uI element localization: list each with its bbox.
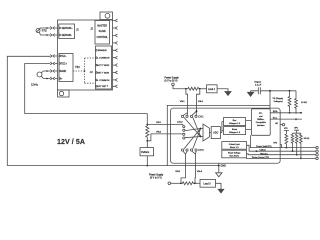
- mux select crossing wires: [184, 117, 201, 136]
- svg-text:+: +: [61, 78, 63, 80]
- VPU terminal 2: [293, 130, 301, 134]
- pullup resistor TC: [300, 134, 303, 158]
- svg-text:ENABLE: ENABLE: [98, 49, 107, 52]
- SDA line: [270, 112, 301, 114]
- mounting tab top: [100, 12, 113, 20]
- Shunt Voltages box: [224, 127, 246, 135]
- svg-text:J1: J1: [76, 28, 79, 32]
- svg-text:0.1 µF: 0.1 µF: [255, 85, 262, 87]
- pullup resistor SCL 10k: [295, 91, 298, 114]
- ground rail wire: [7, 165, 219, 167]
- svg-text:VIN+3: VIN+3: [197, 171, 202, 173]
- svg-text:A0: A0: [275, 122, 278, 125]
- svg-text:Power Supply: Power Supply: [165, 76, 180, 79]
- connector pin pair J1 row2: [50, 34, 57, 37]
- svg-text:ADC: ADC: [213, 131, 218, 134]
- INA3221 chip outline: [171, 108, 281, 163]
- Peltiers box: [140, 148, 154, 156]
- Load 3 box: [200, 179, 216, 187]
- connector pin pair TB1 row3: [50, 70, 57, 73]
- svg-text:Shunt Voltage: Shunt Voltage: [228, 152, 241, 155]
- shunt resistor R3: [181, 182, 195, 185]
- chip GND pin: [218, 163, 220, 173]
- power supply 1 label: [165, 76, 180, 82]
- svg-text:VIN+1: VIN+1: [198, 101, 203, 103]
- svg-text:SET T MON: SET T MON: [97, 72, 109, 74]
- wire TEC- return (left loop): [7, 56, 50, 165]
- svg-text:VPU: VPU: [273, 143, 278, 145]
- svg-text:VPU: VPU: [284, 128, 288, 130]
- wire VIN+3: [192, 151, 196, 183]
- Critical line: [247, 145, 316, 151]
- svg-text:10 kΩ: 10 kΩ: [301, 102, 307, 104]
- connector J3 box: [96, 46, 112, 89]
- svg-text:VIN+2: VIN+2: [156, 132, 161, 134]
- svg-text:Sum Alerts: Sum Alerts: [229, 155, 239, 158]
- mux input nodes: [200, 128, 202, 130]
- svg-text:Peltiers: Peltiers: [141, 151, 150, 154]
- VS wire into chip: [269, 91, 271, 109]
- svg-text:TEC+: TEC+: [61, 63, 68, 65]
- svg-text:Load 3: Load 3: [204, 183, 212, 185]
- svg-text:J2: J2: [90, 26, 93, 30]
- pullup resistor PV: [285, 134, 288, 148]
- SCL line: [270, 118, 302, 120]
- svg-text:and: and: [259, 116, 262, 118]
- svg-text:Critical: Critical: [260, 149, 267, 152]
- connector J1 box: [59, 24, 75, 39]
- svg-text:CH 2: CH 2: [177, 122, 183, 124]
- svg-text:VIN-3: VIN-3: [175, 171, 180, 173]
- VPU terminal 1: [284, 131, 289, 135]
- pullup resistor Critical: [291, 134, 294, 150]
- CH2 switch contacts: [183, 126, 185, 128]
- power supply 3 label: [149, 173, 164, 179]
- svg-text:Compatible: Compatible: [256, 121, 267, 124]
- wires registers to I2C: [246, 121, 252, 130]
- Load 1 box: [207, 85, 218, 93]
- connector pin pair J1 row1: [50, 27, 57, 30]
- wire Peltiers to ground rail: [146, 156, 148, 166]
- ground (bypass cap): [250, 91, 252, 93]
- wire VIN+1: [192, 89, 200, 115]
- wire Load 1 to ground: [217, 89, 228, 92]
- svg-text:Timing Control (TC): Timing Control (TC): [252, 156, 270, 159]
- pullup resistor SDA 10k: [288, 91, 291, 112]
- wire ch2 into contacts: [182, 124, 184, 133]
- wire RTD to J1 (lower): [39, 32, 50, 35]
- svg-text:Critical Limit: Critical Limit: [229, 143, 240, 146]
- shunt resistor R1: [188, 87, 199, 90]
- svg-text:TB1: TB1: [75, 65, 80, 69]
- svg-text:SDA: SDA: [273, 110, 278, 113]
- Bus Voltages box: [224, 118, 246, 126]
- svg-text:CONTROL: CONTROL: [97, 37, 109, 39]
- wire shunt to Load 3: [195, 182, 200, 184]
- svg-text:(0 V to 26 V): (0 V to 26 V): [165, 79, 178, 82]
- wire VIN+2: [147, 134, 181, 141]
- svg-text:SENSOR+: SENSOR+: [62, 28, 74, 30]
- svg-text:VS (Supply: VS (Supply: [273, 98, 285, 100]
- svg-text:+ COMMON: + COMMON: [97, 80, 110, 82]
- temperature controller U1 outline: [58, 20, 113, 90]
- wire VIN-1: [183, 89, 187, 116]
- svg-text:+ COMMON: + COMMON: [97, 58, 110, 60]
- wires ADC to registers: [220, 122, 223, 133]
- svg-text:Power Supply: Power Supply: [149, 173, 164, 176]
- svg-text:I²C-: I²C-: [259, 112, 263, 115]
- svg-text:ACT T MON: ACT T MON: [97, 64, 109, 67]
- ADC: [211, 127, 220, 139]
- svg-text:CH 1: CH 1: [198, 116, 204, 118]
- A0 pin: [280, 124, 282, 126]
- connector pins J3 (right side): [113, 49, 118, 88]
- svg-text:VIN-2: VIN-2: [156, 122, 161, 124]
- svg-text:Voltages 1-3: Voltages 1-3: [229, 122, 241, 125]
- terminal block TB1: [59, 54, 73, 82]
- wire Load 3 to ground: [216, 183, 222, 189]
- svg-text:12V / 5A: 12V / 5A: [57, 139, 85, 146]
- pullup resistor Warning: [295, 134, 298, 154]
- mounting tab bottom: [58, 90, 70, 97]
- bypass capacitor labels: [254, 82, 262, 87]
- bypass capacitor: [251, 87, 270, 94]
- svg-text:Power Valid (PV): Power Valid (PV): [256, 146, 271, 148]
- MUX: [203, 124, 210, 141]
- svg-text:J3: J3: [90, 70, 93, 74]
- svg-text:Voltages 1-3: Voltages 1-3: [229, 131, 241, 134]
- svg-text:SMBus-: SMBus-: [257, 119, 264, 121]
- svg-text:SLAVE: SLAVE: [99, 30, 107, 33]
- wire supply3 to shunt: [171, 182, 181, 184]
- RTD sensor: [36, 29, 40, 33]
- connector pins J2 (right side): [113, 19, 118, 44]
- svg-text:Warning: Warning: [260, 153, 267, 155]
- svg-text:Cbypass: Cbypass: [254, 82, 261, 84]
- connector pin pair TB1 row4: [50, 77, 57, 80]
- svg-text:SENSOR-: SENSOR-: [62, 35, 73, 37]
- power supply 3 terminal: [168, 182, 171, 185]
- wire shunt to Load 1: [200, 88, 207, 90]
- wire RTD to J1 (upper): [39, 27, 50, 30]
- svg-text:Interface: Interface: [257, 124, 266, 127]
- shunt resistor R2 (TEC current): [146, 114, 149, 148]
- CH3 switch contacts: [181, 149, 183, 151]
- svg-text:GND: GND: [61, 71, 66, 73]
- svg-text:12Vdc: 12Vdc: [31, 84, 39, 87]
- svg-text:MASTER: MASTER: [97, 24, 107, 27]
- dashed common bus: [73, 58, 96, 83]
- Shunt Voltage Sum Alerts box: [222, 150, 247, 158]
- svg-text:Bus: Bus: [233, 120, 236, 122]
- svg-text:Alerts 1-3: Alerts 1-3: [230, 146, 239, 149]
- lead 12Vdc to + row: [41, 76, 50, 78]
- lead 12Vdc to GND row: [41, 71, 50, 73]
- svg-text:EXT SET T: EXT SET T: [97, 86, 109, 88]
- power supply 1 terminal: [172, 83, 175, 86]
- svg-text:10 kΩ: 10 kΩ: [304, 138, 310, 140]
- Warning line: [247, 153, 316, 156]
- connector J2 box: [95, 21, 110, 45]
- 12Vdc source: [37, 72, 42, 77]
- svg-text:VPU: VPU: [294, 128, 298, 130]
- wire VIN-3: [181, 151, 187, 183]
- svg-text:Shunt: Shunt: [232, 128, 238, 131]
- VS supply rail: [270, 90, 296, 92]
- Critical Limit Alerts box: [222, 142, 247, 150]
- svg-text:TEC-: TEC-: [61, 56, 67, 58]
- Power Valid (PV) line: [250, 135, 315, 147]
- I2C interface box: [251, 109, 270, 136]
- ground (chip): [216, 173, 222, 177]
- svg-text:RTD: RTD: [42, 29, 47, 32]
- wire mux to ADC: [210, 132, 212, 134]
- svg-text:Voltages): Voltages): [274, 100, 283, 103]
- connector pin pair TB1 row1: [50, 55, 57, 58]
- svg-text:GND: GND: [221, 165, 227, 168]
- gnd loop wire around chip: [167, 105, 270, 165]
- svg-text:VIN-1: VIN-1: [180, 101, 185, 103]
- svg-text:(0 V to 5 V): (0 V to 5 V): [150, 176, 162, 179]
- ground (load 1): [225, 92, 231, 96]
- CH1 switch contacts: [181, 115, 183, 117]
- wire VIN-2: [147, 123, 181, 125]
- svg-text:CH 3: CH 3: [198, 150, 204, 152]
- label VS supply: [273, 98, 285, 103]
- Timing Control (TC) line: [246, 157, 316, 159]
- wire TEC+ to shunt: [25, 64, 148, 114]
- wire supply1 to shunt: [173, 86, 188, 89]
- connector pin pair TB1 row2: [50, 62, 57, 65]
- svg-text:Load 1: Load 1: [208, 89, 216, 91]
- ground (load 3): [218, 189, 224, 193]
